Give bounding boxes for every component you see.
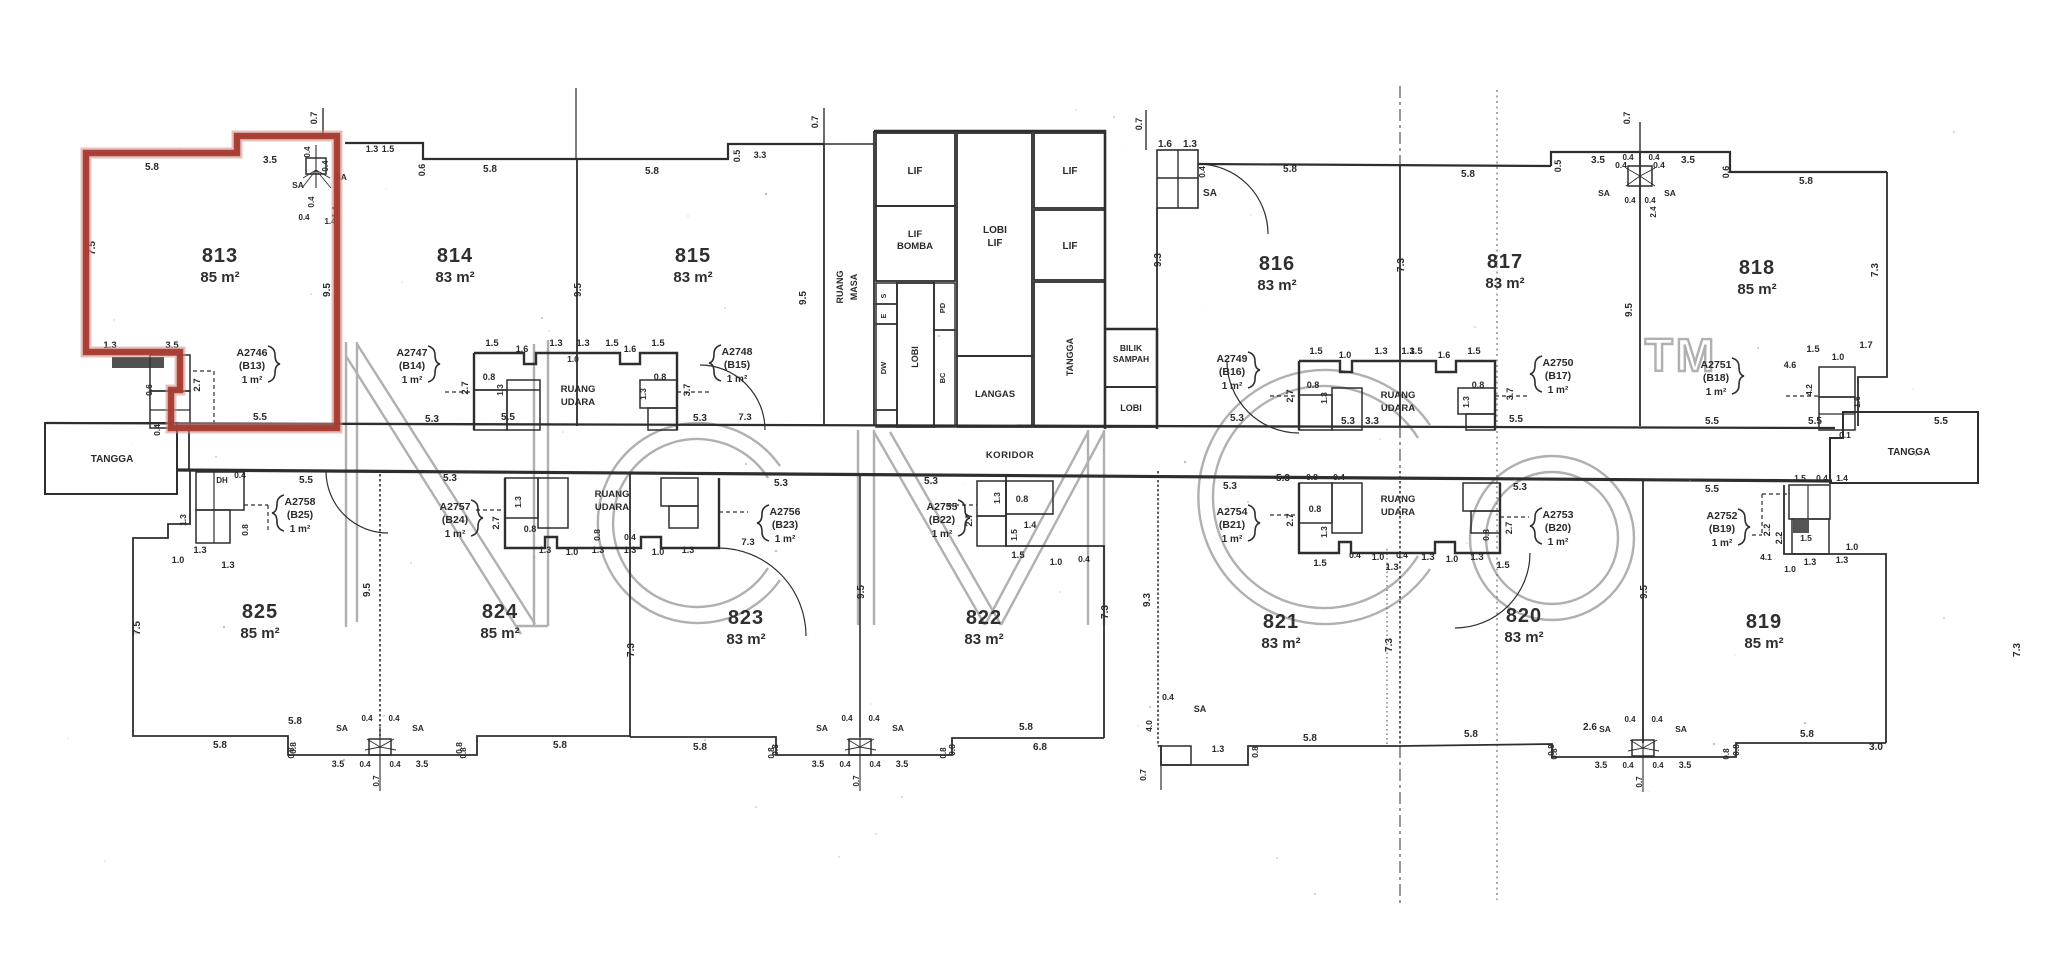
svg-text:5.5: 5.5	[501, 412, 515, 423]
svg-text:1 m²: 1 m²	[1222, 381, 1243, 392]
svg-text:S: S	[881, 293, 888, 298]
unit 820 label	[1504, 605, 1543, 646]
scan noise	[67, 109, 1955, 895]
room LOBI core vertical	[897, 283, 934, 427]
room TANGGA core	[1034, 282, 1105, 427]
svg-text:(B22): (B22)	[929, 514, 955, 526]
svg-text:3.5: 3.5	[416, 759, 429, 769]
svg-text:BOMBA: BOMBA	[897, 241, 933, 252]
label A2755 B22	[927, 500, 970, 540]
unit 818 label	[1737, 257, 1776, 298]
svg-text:A2746: A2746	[237, 347, 268, 359]
svg-text:3.7: 3.7	[1505, 388, 1515, 401]
unit 825 label	[240, 601, 279, 642]
svg-text:(B20): (B20)	[1545, 522, 1571, 534]
door arc 816	[1198, 164, 1268, 234]
svg-text:0.4: 0.4	[361, 714, 373, 723]
svg-text:BC: BC	[938, 372, 947, 383]
svg-text:0.4: 0.4	[1078, 554, 1090, 564]
svg-text:1.0: 1.0	[1832, 352, 1845, 362]
unit 825 wet cluster	[196, 472, 268, 543]
svg-text:1 m²: 1 m²	[1706, 387, 1727, 398]
svg-text:5.8: 5.8	[1464, 729, 1478, 740]
svg-text:1.3: 1.3	[1421, 552, 1434, 563]
unit 823 label	[726, 607, 765, 648]
svg-text:3.0: 3.0	[1869, 742, 1883, 753]
svg-text:83 m²: 83 m²	[435, 269, 474, 286]
svg-text:0.8: 0.8	[483, 372, 496, 382]
svg-text:5.8: 5.8	[1303, 733, 1317, 744]
svg-text:SA: SA	[1203, 188, 1217, 199]
svg-text:1.3: 1.3	[576, 338, 589, 349]
svg-text:5.3: 5.3	[443, 473, 457, 484]
svg-text:0.4: 0.4	[303, 146, 312, 158]
label A2754 B21	[1217, 505, 1260, 545]
svg-text:PD: PD	[938, 302, 947, 313]
svg-text:UDARA: UDARA	[1381, 507, 1415, 518]
unit 814 top wall	[345, 143, 824, 159]
svg-text:A2755: A2755	[927, 501, 958, 513]
door arc 820	[1455, 553, 1530, 628]
svg-text:0.7: 0.7	[1622, 112, 1632, 125]
svg-text:1.3: 1.3	[193, 545, 206, 556]
svg-text:SA: SA	[1598, 188, 1610, 198]
svg-text:1.5: 1.5	[1800, 533, 1812, 543]
watermark letter C	[598, 423, 780, 623]
svg-text:815: 815	[675, 245, 711, 267]
svg-text:5.3: 5.3	[425, 414, 439, 425]
svg-text:(B19): (B19)	[1709, 523, 1735, 535]
svg-text:0.8: 0.8	[240, 524, 250, 536]
unit 816 top wall	[1198, 164, 1551, 166]
svg-text:816: 816	[1259, 253, 1295, 275]
svg-text:1.0: 1.0	[1339, 350, 1352, 360]
unit 813 walls	[86, 136, 337, 428]
svg-text:(B17): (B17)	[1545, 370, 1571, 382]
label A2756 B23	[757, 505, 801, 545]
air well cluster 816/817	[1270, 361, 1528, 430]
wall 816/817 divider	[1399, 165, 1401, 426]
svg-text:5.3: 5.3	[1230, 413, 1244, 424]
svg-text:5.3: 5.3	[1341, 416, 1355, 427]
svg-text:SA: SA	[1194, 704, 1207, 714]
svg-text:6.8: 6.8	[1033, 742, 1047, 753]
room LIF BOMBA	[876, 206, 955, 281]
dimension labels bottom clusters	[172, 470, 1859, 574]
svg-text:3.7: 3.7	[682, 384, 692, 397]
unit 818 right wall	[1858, 172, 1887, 426]
SA vent cluster at x=380	[287, 714, 468, 791]
wall 825/824 divider	[379, 474, 381, 736]
svg-text:2.2: 2.2	[1762, 524, 1772, 537]
svg-text:1.3: 1.3	[178, 514, 188, 526]
svg-text:1.0: 1.0	[566, 547, 579, 557]
unit 813 wet cluster	[112, 355, 214, 428]
svg-text:3.5: 3.5	[332, 759, 345, 769]
stair TANGGA right	[1830, 412, 1978, 483]
air well cluster 814/815	[445, 353, 712, 430]
wall 816 left	[1156, 208, 1158, 329]
svg-text:TANGGA: TANGGA	[91, 454, 134, 465]
svg-text:0.5: 0.5	[732, 150, 742, 163]
svg-text:85 m²: 85 m²	[240, 625, 279, 642]
svg-text:5.5: 5.5	[1509, 414, 1523, 425]
svg-text:1.4: 1.4	[1836, 473, 1848, 483]
svg-text:5.5: 5.5	[253, 412, 267, 423]
svg-text:1.3: 1.3	[1319, 526, 1329, 538]
svg-text:7.3: 7.3	[738, 412, 751, 423]
svg-text:1.3: 1.3	[1319, 392, 1329, 404]
svg-text:UDARA: UDARA	[1381, 403, 1415, 414]
svg-text:813: 813	[202, 245, 238, 267]
dimension labels bottom edges	[213, 716, 1883, 756]
svg-text:824: 824	[482, 601, 518, 623]
svg-text:0.8: 0.8	[1309, 504, 1322, 514]
svg-text:5.3: 5.3	[924, 476, 938, 487]
svg-text:814: 814	[437, 245, 473, 267]
room BILIK SAMPAH	[1105, 329, 1157, 387]
svg-text:SA: SA	[292, 180, 304, 190]
svg-text:1.5: 1.5	[1496, 560, 1510, 571]
svg-text:1.3: 1.3	[638, 388, 648, 400]
unit 821 outline	[1157, 471, 1159, 746]
svg-text:SA: SA	[816, 723, 828, 733]
tick above 813 notch	[309, 108, 323, 136]
dimension labels vertical bottom row	[132, 537, 2023, 657]
svg-text:1.3: 1.3	[1836, 555, 1849, 565]
svg-text:0.4: 0.4	[1644, 196, 1656, 205]
svg-text:DW: DW	[879, 361, 888, 374]
room LIF 2	[1034, 133, 1105, 208]
SA vent cluster at x=860	[767, 714, 948, 791]
svg-text:83 m²: 83 m²	[726, 631, 765, 648]
door arc 816/817 cluster	[1227, 361, 1299, 433]
svg-text:1 m²: 1 m²	[932, 529, 953, 540]
label A2753 B20	[1530, 508, 1574, 548]
unit 815 side strip RUANG MASA	[824, 131, 874, 426]
dimension labels mid top clusters	[103, 338, 1948, 440]
room LANGAS	[957, 356, 1032, 427]
svg-text:7.3: 7.3	[2012, 643, 2023, 657]
label A2750 B17	[1530, 356, 1574, 396]
tick above 817/818	[1639, 122, 1641, 152]
svg-text:5.8: 5.8	[1799, 176, 1813, 187]
svg-text:3.3: 3.3	[754, 150, 767, 160]
svg-text:MASA: MASA	[849, 273, 859, 300]
svg-text:2.7: 2.7	[1285, 513, 1296, 526]
svg-text:3.5: 3.5	[1679, 760, 1692, 770]
unit 822 right notch	[1006, 476, 1104, 738]
svg-text:1 m²: 1 m²	[290, 524, 311, 535]
svg-text:1.6: 1.6	[624, 344, 637, 354]
svg-text:0.8: 0.8	[524, 524, 537, 534]
svg-text:A2751: A2751	[1701, 359, 1732, 371]
svg-text:2.7: 2.7	[460, 381, 471, 394]
svg-text:A2749: A2749	[1217, 353, 1248, 365]
label A2758 B25	[272, 495, 316, 535]
stair TANGGA left	[45, 423, 177, 494]
svg-text:1.6: 1.6	[1438, 350, 1451, 360]
svg-text:E: E	[881, 313, 888, 318]
svg-text:SA: SA	[1664, 188, 1676, 198]
svg-text:0.4: 0.4	[152, 424, 162, 436]
svg-text:LOBI: LOBI	[983, 225, 1007, 236]
tick above core left	[823, 108, 825, 144]
svg-text:KORIDOR: KORIDOR	[986, 450, 1034, 461]
svg-text:1.3: 1.3	[1470, 552, 1483, 563]
small service boxes right column PD BC	[934, 283, 955, 427]
door arc 823	[719, 548, 806, 636]
corridor	[46, 423, 1835, 481]
svg-text:5.8: 5.8	[693, 742, 707, 753]
watermark letter N	[346, 340, 548, 634]
svg-text:RUANG: RUANG	[835, 271, 845, 304]
svg-text:0.7: 0.7	[1138, 769, 1148, 781]
dimension labels top row	[145, 112, 1813, 187]
svg-text:9.3: 9.3	[1153, 253, 1164, 267]
svg-text:3.5: 3.5	[1681, 155, 1695, 166]
svg-text:5.3: 5.3	[1223, 481, 1237, 492]
unit 823/822 bottom wall	[630, 737, 1104, 755]
svg-text:0.4: 0.4	[234, 470, 246, 480]
svg-text:1.0: 1.0	[1050, 557, 1063, 567]
svg-text:0.4: 0.4	[307, 196, 316, 208]
svg-text:1.6: 1.6	[1852, 396, 1862, 408]
svg-text:1.5: 1.5	[1309, 346, 1323, 357]
small service boxes left column	[876, 283, 897, 427]
svg-text:1.7: 1.7	[1859, 340, 1872, 351]
svg-text:SA: SA	[892, 723, 904, 733]
svg-text:0.4: 0.4	[388, 714, 400, 723]
svg-text:9.5: 9.5	[856, 585, 867, 599]
svg-text:RUANG: RUANG	[561, 384, 596, 395]
svg-text:0.4: 0.4	[869, 760, 881, 769]
svg-text:2.7: 2.7	[964, 513, 975, 526]
svg-text:0.7: 0.7	[810, 116, 820, 129]
svg-text:1.4: 1.4	[1024, 520, 1037, 530]
svg-text:0.4: 0.4	[1615, 160, 1627, 170]
svg-text:(B23): (B23)	[772, 519, 798, 531]
svg-text:1.3: 1.3	[624, 545, 637, 555]
svg-text:1.5: 1.5	[1009, 529, 1019, 541]
SA step cluster 821 left	[1138, 692, 1260, 790]
svg-text:819: 819	[1746, 611, 1782, 633]
svg-text:A2757: A2757	[440, 501, 471, 513]
svg-text:(B15): (B15)	[724, 359, 750, 371]
unit 824 label	[480, 601, 519, 642]
svg-text:1.5: 1.5	[1409, 346, 1423, 357]
fold line	[1399, 86, 1401, 166]
wall 817/818 divider	[1639, 152, 1641, 426]
svg-text:1.5: 1.5	[605, 338, 619, 349]
unit 819 label	[1744, 611, 1783, 652]
svg-text:0.4: 0.4	[1653, 160, 1665, 170]
svg-text:UDARA: UDARA	[595, 502, 629, 513]
watermark letter o	[1470, 456, 1634, 620]
svg-text:SA: SA	[412, 723, 424, 733]
svg-text:5.8: 5.8	[288, 716, 302, 727]
svg-text:83 m²: 83 m²	[673, 269, 712, 286]
svg-text:0.4: 0.4	[1816, 473, 1828, 483]
svg-text:9.5: 9.5	[573, 283, 584, 297]
unit 819 wet cluster	[1752, 485, 1830, 554]
svg-text:1.3: 1.3	[513, 496, 523, 508]
unit 822 label	[964, 607, 1003, 648]
svg-text:3.3: 3.3	[1365, 416, 1379, 427]
svg-text:0.4: 0.4	[1333, 472, 1345, 482]
svg-text:5.8: 5.8	[553, 740, 567, 751]
svg-text:1.3: 1.3	[221, 560, 234, 571]
svg-text:(B24): (B24)	[442, 514, 468, 526]
unit 825 outline	[133, 471, 630, 755]
svg-text:0.8: 0.8	[1250, 746, 1260, 758]
svg-text:0.4: 0.4	[1652, 761, 1664, 770]
svg-text:5.3: 5.3	[1513, 482, 1527, 493]
svg-text:821: 821	[1263, 611, 1299, 633]
svg-text:1.3: 1.3	[1212, 744, 1225, 754]
svg-text:1.3: 1.3	[592, 545, 605, 555]
svg-text:0.4: 0.4	[1349, 550, 1361, 560]
svg-text:1.3: 1.3	[495, 384, 505, 396]
wall below unit 813	[188, 428, 190, 471]
svg-text:A2752: A2752	[1707, 510, 1738, 522]
svg-text:1.3: 1.3	[1461, 396, 1471, 408]
svg-text:5.8: 5.8	[1800, 729, 1814, 740]
svg-text:4.1: 4.1	[1760, 552, 1772, 562]
svg-text:RUANG: RUANG	[595, 489, 630, 500]
svg-text:83 m²: 83 m²	[1257, 277, 1296, 294]
svg-text:(B25): (B25)	[287, 509, 313, 521]
fold line top	[575, 88, 577, 160]
svg-text:1.5: 1.5	[1794, 473, 1806, 483]
label A2749 B16	[1217, 352, 1260, 392]
svg-text:3.5: 3.5	[1595, 760, 1608, 770]
svg-text:5.8: 5.8	[483, 164, 497, 175]
svg-text:7.3: 7.3	[1396, 258, 1407, 272]
svg-text:2.7: 2.7	[1504, 522, 1514, 535]
svg-text:5.5: 5.5	[1705, 484, 1719, 495]
svg-text:2.6: 2.6	[1583, 722, 1597, 733]
unit 822 wet cluster	[948, 481, 1053, 546]
svg-text:0.8: 0.8	[1472, 380, 1485, 390]
svg-text:9.5: 9.5	[798, 291, 809, 305]
svg-text:2.7: 2.7	[1285, 389, 1296, 402]
svg-text:TANGGA: TANGGA	[1065, 337, 1075, 376]
svg-text:0.8: 0.8	[1546, 744, 1556, 756]
svg-text:0.8: 0.8	[770, 744, 780, 756]
unit 814 label	[435, 245, 474, 286]
svg-text:9.5: 9.5	[322, 283, 333, 297]
svg-text:0.4: 0.4	[1624, 715, 1636, 724]
svg-text:0.4: 0.4	[1162, 692, 1174, 702]
svg-text:5.8: 5.8	[645, 166, 659, 177]
svg-text:3.5: 3.5	[812, 759, 825, 769]
svg-text:0.8: 0.8	[654, 372, 667, 382]
svg-text:2.7: 2.7	[192, 378, 203, 391]
svg-text:LIF: LIF	[908, 166, 923, 177]
svg-text:1.0: 1.0	[567, 354, 579, 364]
svg-text:A2753: A2753	[1543, 509, 1574, 521]
unit 820 bottom wall	[1400, 743, 1886, 757]
svg-text:1 m²: 1 m²	[445, 529, 466, 540]
svg-text:3.5: 3.5	[1591, 155, 1605, 166]
svg-text:0.7: 0.7	[309, 112, 319, 125]
label A2752 B19	[1707, 509, 1750, 549]
wall 820/819 divider	[1642, 480, 1644, 743]
svg-text:822: 822	[966, 607, 1002, 629]
svg-text:(B14): (B14)	[399, 360, 425, 372]
svg-text:0.4: 0.4	[298, 213, 310, 222]
svg-text:LOBI: LOBI	[910, 346, 920, 368]
svg-text:1 m²: 1 m²	[1712, 538, 1733, 549]
svg-text:SA: SA	[1675, 724, 1687, 734]
svg-text:0.8: 0.8	[1306, 472, 1318, 482]
svg-text:0.1: 0.1	[1839, 430, 1851, 440]
svg-text:1.5: 1.5	[1806, 344, 1820, 355]
svg-text:SA: SA	[1599, 724, 1611, 734]
svg-text:0.8: 0.8	[1016, 494, 1029, 504]
svg-text:1.0: 1.0	[652, 547, 665, 557]
svg-text:1 m²: 1 m²	[402, 375, 423, 386]
SA vent cluster top 813/814	[292, 145, 347, 226]
svg-text:5.3: 5.3	[1276, 473, 1290, 484]
label A2757 B24	[440, 500, 483, 540]
svg-text:1.3: 1.3	[1385, 562, 1398, 573]
svg-text:BILIK: BILIK	[1120, 343, 1143, 353]
svg-text:2.4: 2.4	[1649, 206, 1658, 218]
svg-text:A2750: A2750	[1543, 357, 1574, 369]
svg-text:83 m²: 83 m²	[1504, 629, 1543, 646]
tick above core right	[1145, 110, 1147, 150]
svg-text:1.0: 1.0	[172, 555, 185, 565]
svg-text:A2756: A2756	[770, 506, 801, 518]
svg-text:85 m²: 85 m²	[1744, 635, 1783, 652]
svg-text:0.6: 0.6	[417, 164, 427, 177]
unit 816 label	[1257, 253, 1296, 294]
svg-text:5.8: 5.8	[1019, 722, 1033, 733]
svg-text:1 m²: 1 m²	[1548, 537, 1569, 548]
watermark letter M	[858, 430, 1104, 625]
highlight outline unit 813	[86, 136, 337, 428]
svg-text:3.5: 3.5	[263, 155, 277, 166]
svg-text:DH: DH	[216, 476, 228, 485]
svg-text:5.5: 5.5	[299, 475, 313, 486]
svg-text:0.6: 0.6	[1721, 166, 1731, 179]
svg-text:A2758: A2758	[285, 496, 316, 508]
label A2748 B15	[709, 345, 753, 385]
label A2747 B14	[397, 346, 440, 386]
svg-text:0.8: 0.8	[1722, 748, 1731, 760]
svg-text:9.5: 9.5	[362, 583, 373, 597]
svg-text:0.4: 0.4	[1622, 761, 1634, 770]
svg-text:85 m²: 85 m²	[1737, 281, 1776, 298]
svg-text:2.7: 2.7	[491, 516, 502, 529]
air well cluster 821/820	[1270, 483, 1529, 553]
svg-text:A2754: A2754	[1217, 506, 1248, 518]
svg-text:83 m²: 83 m²	[1485, 275, 1524, 292]
svg-text:818: 818	[1739, 257, 1775, 279]
svg-text:7.3: 7.3	[626, 643, 637, 657]
svg-text:7.3: 7.3	[1870, 263, 1881, 277]
svg-text:A2747: A2747	[397, 347, 428, 359]
svg-text:LOBI: LOBI	[1120, 403, 1142, 413]
svg-text:0.7: 0.7	[1134, 118, 1144, 131]
svg-text:85 m²: 85 m²	[200, 269, 239, 286]
dimension labels corridor south edge	[1276, 416, 1719, 484]
svg-text:RUANG: RUANG	[1381, 494, 1416, 505]
SA vent cluster top 817/818	[1598, 153, 1676, 218]
svg-text:1 m²: 1 m²	[1548, 385, 1569, 396]
